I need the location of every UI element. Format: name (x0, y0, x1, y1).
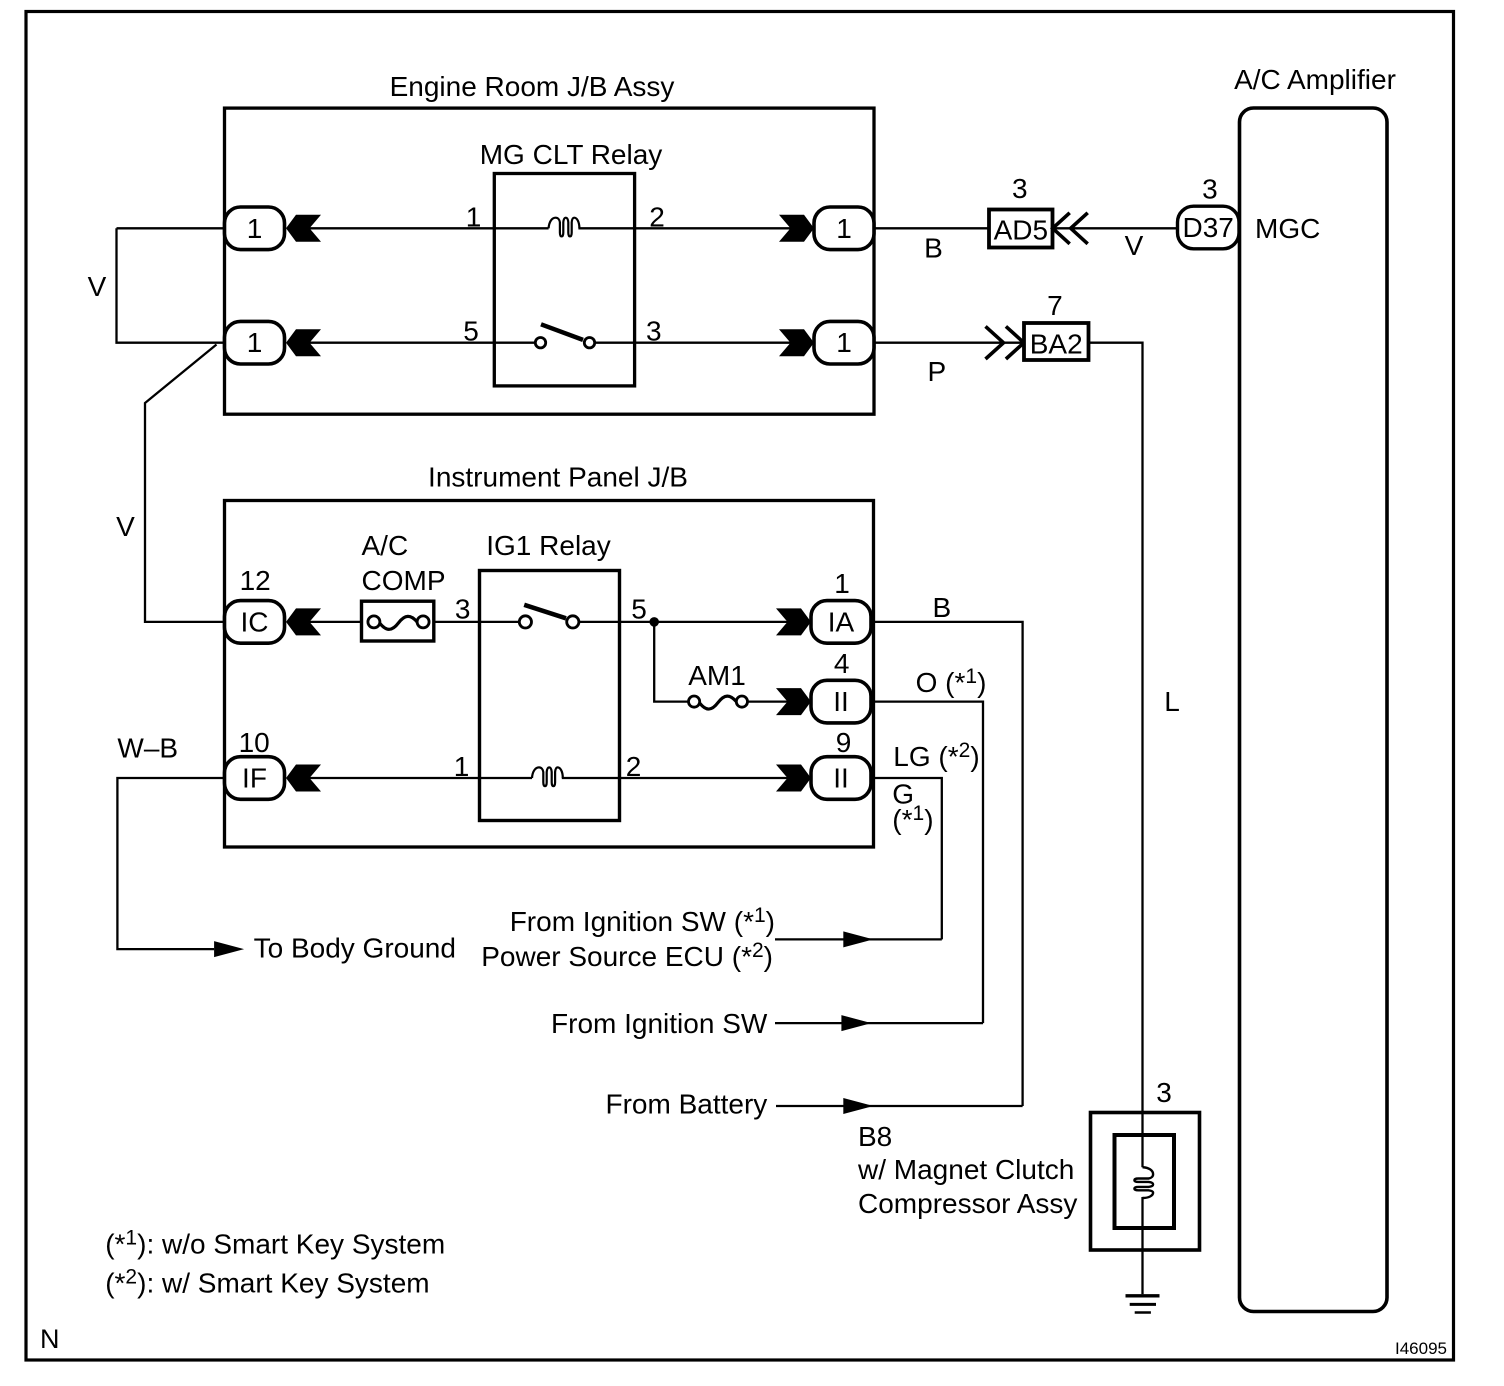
svg-text:3: 3 (646, 316, 662, 347)
svg-text:V: V (1125, 230, 1144, 261)
svg-text:1: 1 (834, 568, 850, 599)
svg-text:(*1): w/o Smart Key System: (*1): w/o Smart Key System (105, 1226, 445, 1259)
connector arrow II4 (776, 688, 811, 715)
svg-text:Engine Room J/B Assy: Engine Room J/B Assy (390, 71, 675, 102)
wire coil to ground (1141, 1197, 1143, 1294)
connector oval IC (225, 601, 285, 644)
wire LG to ignition/power wire (874, 778, 942, 939)
arrow from ignition sw 1 (843, 931, 873, 947)
svg-text:5: 5 (631, 594, 647, 625)
A/C COMP fuse box (362, 601, 434, 641)
connector oval 1 (row1 left) (225, 207, 285, 250)
svg-text:A/C: A/C (362, 530, 409, 561)
svg-text:(*1): (*1) (892, 802, 933, 835)
junction dot (649, 617, 659, 627)
arrow from battery (843, 1098, 873, 1114)
wire row1 to relay (310, 227, 549, 229)
connector arrow row1 left (286, 215, 321, 242)
wire B to battery wire (874, 622, 1023, 1106)
svg-text:B8: B8 (858, 1121, 892, 1152)
wire from battery (776, 1105, 1023, 1107)
svg-text:AD5: AD5 (994, 214, 1048, 245)
connector arrow II9 (776, 765, 811, 792)
svg-text:B: B (932, 592, 951, 623)
svg-text:1: 1 (454, 751, 470, 782)
svg-text:Power Source ECU (*2): Power Source ECU (*2) (481, 939, 773, 972)
svg-text:2: 2 (626, 751, 642, 782)
svg-text:B: B (924, 233, 943, 264)
svg-text:MG CLT Relay: MG CLT Relay (480, 139, 663, 170)
svg-text:I46095: I46095 (1395, 1339, 1447, 1358)
A/C COMP fuse (368, 616, 380, 628)
MG CLT relay box (494, 174, 634, 386)
wire switch to IA (579, 621, 811, 623)
svg-text:L: L (1164, 686, 1180, 717)
IG1 relay box (480, 571, 620, 821)
chevrons at AD5 (1053, 213, 1070, 244)
svg-text:Instrument Panel J/B: Instrument Panel J/B (428, 462, 688, 493)
svg-text:3: 3 (1156, 1077, 1172, 1108)
svg-text:1: 1 (466, 202, 482, 233)
svg-text:From Battery: From Battery (605, 1089, 767, 1120)
wire row2 to switch (310, 342, 536, 344)
svg-text:To Body Ground: To Body Ground (254, 933, 456, 964)
wire IC row (310, 621, 480, 623)
arrow from ignition sw 2 (841, 1015, 871, 1031)
connector oval II4 (811, 680, 871, 723)
svg-text:Compressor Assy: Compressor Assy (858, 1188, 1077, 1219)
svg-text:D37: D37 (1183, 212, 1234, 243)
relay coil (pins 1-2) (549, 218, 580, 237)
wire O to ignition wire (874, 702, 984, 1024)
svg-text:1: 1 (247, 213, 263, 244)
svg-text:4: 4 (834, 648, 850, 679)
svg-text:LG (*2): LG (*2) (893, 739, 979, 772)
svg-text:5: 5 (463, 316, 479, 347)
wire dot down to AM1 (654, 622, 688, 702)
wire V bracket left of engine room box (117, 227, 225, 229)
svg-text:10: 10 (239, 727, 270, 758)
svg-text:(*2): w/ Smart Key System: (*2): w/ Smart Key System (105, 1265, 429, 1298)
svg-text:O (*1): O (*1) (916, 665, 987, 698)
magnet clutch coil (1134, 1167, 1153, 1198)
connector oval IF (225, 757, 285, 800)
svg-text:MGC: MGC (1255, 213, 1320, 244)
connector arrow row2 right (779, 329, 814, 356)
svg-text:1: 1 (247, 327, 263, 358)
wire diagonal row2-oval to V wire (145, 345, 225, 622)
wire IF row right (562, 777, 813, 779)
svg-text:W–B: W–B (117, 733, 178, 764)
svg-text:IF: IF (242, 763, 267, 794)
svg-text:N: N (40, 1324, 60, 1354)
wire IF row (310, 777, 533, 779)
svg-text:A/C Amplifier: A/C Amplifier (1234, 64, 1396, 95)
svg-text:II: II (833, 763, 849, 794)
connector arrow row1 right (779, 215, 814, 242)
svg-text:IC: IC (241, 606, 269, 637)
connector arrow IA (776, 608, 811, 635)
wire from ignition sw 2 (775, 1022, 983, 1024)
wire row1 relay to AD5 (578, 227, 989, 229)
to-body-ground arrow (214, 941, 244, 957)
A/C amplifier box (1240, 108, 1388, 1312)
svg-text:AM1: AM1 (688, 660, 746, 691)
svg-text:V: V (116, 511, 135, 542)
AM1 fuse (689, 696, 700, 707)
magnet clutch outer box (1091, 1113, 1200, 1251)
svg-text:V: V (88, 271, 107, 302)
connector oval 1 (row1 right) (814, 207, 874, 250)
wire IC row inside relay (480, 621, 520, 623)
svg-text:1: 1 (836, 213, 852, 244)
instrument panel J/B box (225, 501, 874, 848)
connector oval II9 (811, 757, 871, 800)
IG1 relay coil (532, 767, 563, 786)
svg-text:7: 7 (1047, 290, 1063, 321)
wire BA2 to L wire corner (1089, 343, 1143, 1167)
wire W-B (117, 778, 224, 949)
connector oval 1 (row2 right) (814, 321, 874, 364)
ground symbol (1126, 1294, 1160, 1297)
svg-text:12: 12 (240, 565, 271, 596)
svg-text:1: 1 (836, 327, 852, 358)
magnet clutch inner box (1115, 1135, 1175, 1228)
connector arrow IF (286, 765, 321, 792)
connector oval D37 (1178, 206, 1240, 249)
svg-text:COMP: COMP (362, 565, 446, 596)
svg-text:From Ignition SW: From Ignition SW (551, 1008, 768, 1039)
connector oval IA (811, 601, 871, 644)
wire from ignition sw 1 (775, 938, 942, 940)
svg-text:w/ Magnet Clutch: w/ Magnet Clutch (857, 1154, 1074, 1185)
wire row2 switch to BA2 (595, 342, 1024, 344)
svg-text:From Ignition SW (*1): From Ignition SW (*1) (510, 904, 775, 937)
svg-text:3: 3 (455, 594, 471, 625)
engine room J/B box (225, 108, 875, 414)
svg-text:3: 3 (1202, 174, 1218, 205)
relay switch (pins 5-3) (535, 338, 545, 348)
connector arrow IC (286, 608, 321, 635)
connector AD5 (989, 210, 1053, 248)
IG1 switch (519, 616, 531, 628)
wire AM1 to II4 (748, 700, 814, 702)
svg-text:P: P (928, 356, 947, 387)
svg-text:II: II (833, 686, 849, 717)
connector BA2 (1024, 323, 1089, 360)
svg-text:BA2: BA2 (1030, 328, 1083, 359)
svg-text:9: 9 (836, 727, 852, 758)
wire AD5 to D37 (1053, 227, 1180, 229)
connector oval 1 (row2 left) (225, 321, 285, 364)
svg-text:IA: IA (828, 606, 855, 637)
connector arrow row2 left (286, 329, 321, 356)
svg-text:3: 3 (1012, 173, 1028, 204)
chevrons at BA2 (986, 326, 1004, 359)
svg-text:2: 2 (649, 202, 665, 233)
svg-text:IG1 Relay: IG1 Relay (486, 530, 611, 561)
